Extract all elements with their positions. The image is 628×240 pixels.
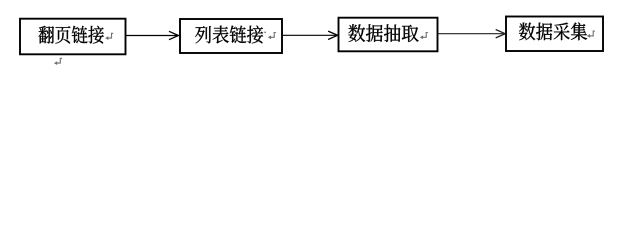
box 翻页链接 [20, 19, 126, 55]
paragraph return mark below box 1 [54, 58, 62, 65]
return mark in box 4 [587, 31, 595, 38]
text 翻页链接 [39, 26, 104, 44]
return mark in box 2 [268, 33, 276, 40]
text 数据采集 [519, 22, 587, 40]
return mark in box 1 [105, 33, 113, 40]
text 数据抽取 [348, 24, 418, 42]
return mark in box 3 [420, 33, 428, 40]
arrow box1 to box2 [126, 31, 179, 39]
space dot in box 2 [264, 32, 266, 33]
text 列表链接 [195, 26, 263, 44]
box 列表链接 [180, 19, 282, 53]
box 数据抽取 [339, 18, 438, 52]
arrow box3 to box4 [439, 30, 506, 38]
box 数据采集 [506, 17, 603, 52]
arrow box2 to box3 [283, 31, 338, 39]
